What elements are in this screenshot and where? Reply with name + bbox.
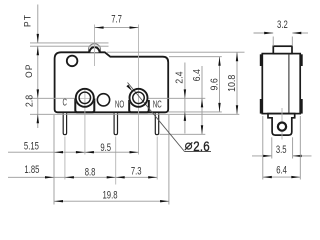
mounting hole	[67, 56, 78, 67]
plunger dome (thick)	[89, 47, 99, 52]
svg-text:2.8: 2.8	[24, 95, 36, 107]
centre mark across C hole	[79, 97, 90, 99]
dimension 8.8	[54, 176, 116, 178]
diameter symbol	[186, 143, 192, 149]
svg-text:8.8: 8.8	[85, 166, 96, 179]
C pin	[63, 113, 66, 134]
body right extension line	[168, 115, 170, 205]
svg-text:2.6: 2.6	[193, 138, 210, 154]
svg-text:3.5: 3.5	[276, 144, 287, 157]
side view body	[262, 54, 300, 114]
dimension PT	[37, 5, 39, 43]
dimension 7.3	[116, 176, 158, 178]
C terminal circle white fill	[75, 88, 95, 108]
NC terminal circle white fill	[129, 88, 149, 108]
pin bottom extension (right)	[160, 133, 206, 135]
dimension 5.15	[8, 151, 85, 153]
dimension 6.4	[201, 66, 203, 134]
side view right bottom ridge	[300, 99, 303, 114]
dimension 2.8	[37, 114, 39, 123]
NO pin	[114, 113, 117, 134]
side view left bottom ridge	[260, 99, 263, 114]
body left extension line	[53, 115, 55, 205]
svg-text:6.4: 6.4	[276, 164, 287, 177]
base line extension (long)	[30, 113, 239, 115]
free position line (PT top)	[30, 42, 109, 44]
svg-text:3.2: 3.2	[277, 19, 288, 32]
side view terminal tab	[268, 114, 295, 136]
NO contact circle	[97, 94, 109, 106]
NC terminal outer circle	[130, 89, 148, 107]
dimension 3.5	[252, 155, 272, 157]
NC terminal bracket	[129, 100, 149, 112]
NO pin centerline extension	[115, 137, 117, 185]
svg-text:OP: OP	[24, 63, 34, 78]
svg-text:1.85: 1.85	[24, 164, 39, 177]
svg-text:5.15: 5.15	[24, 140, 39, 153]
terminal hole centerline	[281, 108, 283, 140]
svg-text:C: C	[62, 96, 66, 108]
dimension 3.2	[254, 32, 274, 34]
leader line dia 2.6	[128, 83, 185, 152]
terminal centre horizontal extension (right)	[148, 97, 205, 99]
plunger centerline	[94, 25, 96, 67]
body top-left level extension to right	[107, 51, 245, 53]
operating position line (PT bottom)	[30, 45, 109, 47]
svg-text:7.7: 7.7	[111, 13, 122, 26]
C terminal outer circle	[76, 89, 94, 107]
NC pin centerline extension	[156, 137, 158, 180]
svg-text:2.4: 2.4	[174, 71, 186, 84]
svg-text:PT: PT	[22, 14, 32, 27]
C terminal centerline (vertical)	[84, 88, 86, 155]
side view right top ridge	[300, 54, 303, 66]
body bottom extension (right)	[168, 111, 222, 113]
svg-text:9.5: 9.5	[100, 142, 111, 155]
dimension 10.8	[236, 52, 238, 114]
dimension 6.4 (side)	[263, 176, 301, 178]
C terminal hole	[79, 92, 91, 104]
svg-text:7.3: 7.3	[131, 165, 142, 178]
dimension 1.85	[8, 176, 54, 178]
dimension 2.4	[184, 63, 186, 134]
dimension 9.5	[85, 151, 139, 153]
C pin centerline extension	[64, 137, 66, 180]
switch body outline (front view)	[55, 52, 169, 112]
svg-text:NO: NO	[115, 98, 125, 110]
dimension 19.8	[54, 200, 169, 202]
NC pin	[155, 113, 158, 134]
svg-text:NC: NC	[153, 98, 162, 110]
body top-right level extension	[169, 56, 222, 58]
plunger free-position outline (thin circle, mostly hidden)	[89, 44, 101, 53]
side view left top ridge	[260, 54, 263, 66]
dimension 7.7	[95, 27, 139, 29]
terminal hole (side)	[278, 123, 286, 131]
svg-text:6.4: 6.4	[191, 68, 203, 81]
svg-text:19.8: 19.8	[103, 189, 118, 202]
NC terminal hole	[133, 92, 145, 104]
dimension OP	[37, 46, 39, 128]
side view plunger	[273, 46, 292, 53]
svg-text:10.8: 10.8	[226, 75, 238, 92]
side view parting line	[288, 54, 290, 114]
NC terminal centerline (vertical)	[138, 25, 140, 155]
svg-text:9.6: 9.6	[209, 78, 221, 90]
dimension 9.6	[219, 57, 221, 112]
terminal centre horizontal extension (left)	[30, 97, 75, 99]
C terminal bracket	[75, 99, 94, 113]
